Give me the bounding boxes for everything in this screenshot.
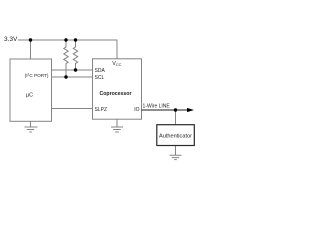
svg-text:3.3V: 3.3V <box>4 36 18 43</box>
svg-text:SDA: SDA <box>95 68 106 74</box>
svg-text:SCL: SCL <box>95 75 105 81</box>
svg-text:µC: µC <box>26 93 33 99</box>
svg-text:IO: IO <box>134 107 139 113</box>
svg-text:SLPZ: SLPZ <box>95 107 108 113</box>
svg-text:Authenticator: Authenticator <box>159 134 192 140</box>
svg-text:Coprocessor: Coprocessor <box>100 91 132 97</box>
svg-text:1-Wire LINE: 1-Wire LINE <box>143 104 171 110</box>
